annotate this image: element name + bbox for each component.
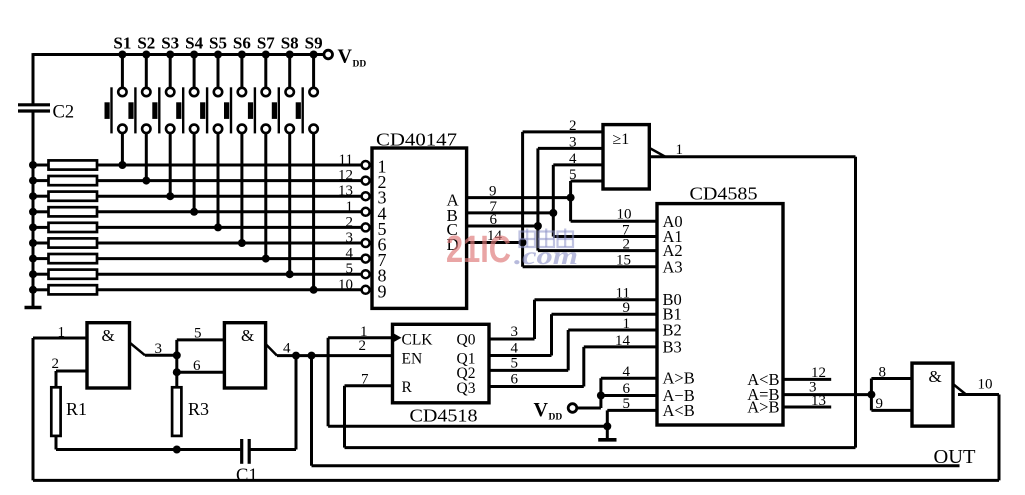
svg-text:A>B: A>B bbox=[747, 398, 779, 417]
wire: NAND3 input fork vertical bbox=[870, 379, 873, 411]
svg-text:15: 15 bbox=[616, 253, 631, 269]
wire: reset feedback line (OR output to R) bbox=[345, 446, 856, 449]
wire: NAND3 output (pin 10) bbox=[958, 393, 999, 396]
wire: input-2 drop to R1 bbox=[55, 371, 58, 387]
wire: A3 input (pin 15) bbox=[523, 265, 657, 268]
wire: Q1 output (pin 4) bbox=[489, 354, 552, 357]
wire: riser A (to OR-5 and A0) bbox=[569, 181, 572, 221]
svg-text:EN: EN bbox=[402, 351, 423, 368]
svg-text:2: 2 bbox=[359, 338, 367, 354]
svg-text:&: & bbox=[241, 326, 254, 345]
wire: row 3 to CD40147 pin 3 bbox=[97, 195, 362, 198]
resistor (input pull-down 8) bbox=[49, 270, 98, 279]
node: left-rail junction row 9 bbox=[29, 286, 37, 294]
pin circle: CD40147 input 8 bbox=[362, 270, 370, 278]
node: junction A=B to NAND inputs bbox=[867, 391, 875, 399]
svg-text:6: 6 bbox=[490, 212, 498, 228]
wire: CLK (pin 1) from grounded riser bbox=[328, 336, 392, 339]
svg-text:14: 14 bbox=[615, 333, 631, 349]
svg-text:S7: S7 bbox=[257, 34, 275, 53]
svg-text:13: 13 bbox=[338, 183, 353, 199]
svg-text:A>B: A>B bbox=[663, 369, 695, 388]
svg-text:C1: C1 bbox=[236, 466, 258, 486]
node: left-rail junction row 1 bbox=[29, 161, 37, 169]
wire: VDD to riser bbox=[577, 407, 601, 410]
NAND3 output wedge bbox=[953, 384, 966, 395]
pin circle: CD40147 input 3 bbox=[362, 192, 370, 200]
node: junction on output D bbox=[519, 239, 527, 247]
svg-text:5: 5 bbox=[623, 396, 631, 412]
wire: B0 input (pin 11) bbox=[535, 298, 658, 301]
svg-text:13: 13 bbox=[811, 393, 826, 409]
NAND2 output wedge bbox=[266, 344, 277, 356]
capacitor C1 bbox=[240, 439, 243, 464]
svg-text:CLK: CLK bbox=[402, 332, 434, 349]
svg-text:5: 5 bbox=[346, 261, 354, 277]
wire: riser B (to OR-4 and A1) bbox=[552, 165, 555, 237]
wire: encoder output C (pin 6) bbox=[467, 225, 538, 228]
wire: RC bottom rail (R1-R3-C1) bbox=[56, 448, 240, 451]
wire: encoder output A (pin 9) bbox=[467, 196, 571, 199]
node: left-rail junction row 8 bbox=[29, 270, 37, 278]
resistor (input pull-down 1) bbox=[49, 160, 98, 169]
IC U4 CD4518 body bbox=[393, 324, 490, 403]
svg-text:2: 2 bbox=[346, 214, 354, 230]
svg-text:8: 8 bbox=[879, 365, 887, 381]
pin circle: CD40147 input 5 bbox=[362, 223, 370, 231]
node: left-rail junction row 3 bbox=[29, 192, 37, 200]
wire: NAND1 input 2 bbox=[56, 370, 87, 373]
svg-text:5: 5 bbox=[511, 355, 519, 371]
pin circle: CD40147 input 6 bbox=[362, 239, 370, 247]
node: junction node4-b bbox=[308, 352, 316, 360]
svg-text:S5: S5 bbox=[209, 34, 227, 53]
pin circle: CD40147 input 7 bbox=[362, 255, 370, 263]
svg-text:S6: S6 bbox=[233, 34, 251, 53]
wire: NAND2 input 6 bbox=[177, 371, 225, 374]
svg-text:S8: S8 bbox=[281, 34, 299, 53]
wire: encoder output B (pin 7) bbox=[467, 211, 554, 214]
svg-text:.com: .com bbox=[514, 243, 578, 270]
node: junction on output A bbox=[567, 194, 575, 202]
wire: left vertical rail (upper) bbox=[32, 53, 35, 104]
svg-text:DD: DD bbox=[353, 60, 367, 70]
wire: row 1 to CD40147 pin 1 bbox=[97, 164, 362, 167]
svg-text:&: & bbox=[929, 367, 942, 386]
svg-text:S9: S9 bbox=[305, 34, 323, 53]
svg-text:4: 4 bbox=[346, 246, 354, 262]
wire: encoder output D (pin 14) bbox=[467, 241, 523, 244]
node: left-rail junction row 2 bbox=[29, 177, 37, 185]
svg-text:12: 12 bbox=[338, 168, 353, 184]
NAND gate U5b body bbox=[224, 323, 265, 388]
svg-text:1: 1 bbox=[346, 199, 354, 215]
wire: node3 vertical (to pin5 / pin6 / R3) bbox=[175, 340, 178, 387]
wire: B3 input (pin 14) bbox=[584, 345, 657, 348]
svg-text:≥1: ≥1 bbox=[613, 131, 630, 148]
wire: riser Q2 to B2 bbox=[567, 330, 570, 370]
wire: row 5 left stub bbox=[33, 226, 49, 229]
svg-text:2: 2 bbox=[623, 237, 631, 253]
node: junction R3 bottom bbox=[173, 446, 181, 454]
resistor (input pull-down 7) bbox=[49, 254, 98, 263]
wire: OR input pin 2 bbox=[523, 130, 603, 133]
wire: row 6 left stub bbox=[33, 242, 49, 245]
wire: A0 input (pin 10) bbox=[571, 220, 657, 223]
svg-text:6: 6 bbox=[193, 358, 201, 374]
wire: riser ground to pin 5 bbox=[606, 410, 609, 426]
svg-text:S3: S3 bbox=[161, 34, 179, 53]
svg-text:S4: S4 bbox=[185, 34, 203, 53]
wire: B1 input (pin 9) bbox=[552, 313, 658, 316]
node: left-rail junction row 7 bbox=[29, 255, 37, 263]
svg-text:Q0: Q0 bbox=[457, 332, 476, 349]
svg-text:R: R bbox=[402, 379, 413, 396]
wire: riser C (to OR-3 and A2) bbox=[536, 148, 539, 250]
node: junction pin 6 bbox=[173, 368, 181, 376]
wire: row 4 to CD40147 pin 4 bbox=[97, 210, 362, 213]
svg-text:S2: S2 bbox=[137, 34, 155, 53]
wire: row 5 to CD40147 pin 5 bbox=[97, 226, 362, 229]
wire: VDD top rail bbox=[33, 53, 324, 56]
wire: riser Q0 to B0 bbox=[533, 300, 536, 339]
svg-text:3: 3 bbox=[346, 230, 354, 246]
svg-text:10: 10 bbox=[617, 207, 632, 223]
wire: row 9 to CD40147 pin 9 bbox=[97, 288, 362, 291]
wire: left vertical rail (lower) bbox=[32, 111, 35, 307]
svg-text:S1: S1 bbox=[113, 34, 131, 53]
OR gate output wedge bbox=[650, 148, 666, 157]
NAND gate U6 body bbox=[912, 363, 953, 426]
ground (bottom of left rail) bbox=[25, 306, 42, 310]
svg-text:1: 1 bbox=[623, 316, 631, 332]
svg-text:2: 2 bbox=[569, 118, 577, 134]
wire: VDD riser to pin 4 bbox=[599, 378, 602, 408]
power terminal VDD (top right) bbox=[324, 50, 333, 59]
svg-text:R3: R3 bbox=[188, 399, 209, 419]
wire: NAND2 output node 4 to CD4518 EN (pin 2) bbox=[277, 354, 393, 357]
wire: row 8 left stub bbox=[33, 273, 49, 276]
IC U1 CD40147 body bbox=[372, 148, 467, 308]
wire: cascade A=B input (pin 6) bbox=[601, 394, 657, 397]
wire: riser Q3 to B3 bbox=[582, 347, 585, 387]
wire: A2 input (pin 2) bbox=[538, 249, 657, 252]
wire: OR output vertical down (to counter reset line) bbox=[854, 157, 857, 448]
node: left-rail junction row 6 bbox=[29, 239, 37, 247]
svg-text:6: 6 bbox=[623, 381, 631, 397]
svg-text:1: 1 bbox=[58, 325, 66, 341]
capacitor C2 bbox=[18, 103, 50, 106]
wire: R drop to feedback line bbox=[343, 386, 346, 448]
svg-text:R1: R1 bbox=[66, 399, 87, 419]
svg-text:3: 3 bbox=[569, 135, 577, 151]
wire: output A=B (pin 3) bbox=[783, 393, 871, 396]
wire: NAND1 input 1 bbox=[33, 337, 87, 340]
wire: row 7 left stub bbox=[33, 257, 49, 260]
svg-text:OUT: OUT bbox=[934, 446, 976, 468]
svg-text:3: 3 bbox=[511, 324, 519, 340]
wire: row 3 left stub bbox=[33, 195, 49, 198]
svg-text:6: 6 bbox=[511, 372, 519, 388]
svg-text:4: 4 bbox=[283, 341, 291, 357]
wire: row 9 left stub bbox=[33, 288, 49, 291]
wire: Q0 output (pin 3) bbox=[489, 338, 535, 341]
wire: cascade A&lt;B input (pin 5) bbox=[607, 409, 657, 412]
wire: OR input pin 4 bbox=[553, 163, 603, 166]
ground (near CD4585) bbox=[606, 426, 609, 439]
svg-text:&: & bbox=[102, 326, 115, 345]
node: junction on output C bbox=[534, 222, 542, 230]
wire: row 1 left stub bbox=[33, 164, 49, 167]
node: left-rail junction row 4 bbox=[29, 208, 37, 216]
wire: row 4 left stub bbox=[33, 210, 49, 213]
wire: OR output to right vertical bbox=[650, 155, 856, 158]
wire: R reset (pin 7) bbox=[345, 384, 393, 387]
svg-text:DD: DD bbox=[549, 413, 563, 423]
wire: left vertical feedback bbox=[32, 338, 35, 480]
wire: ground line to CD4585 ground point bbox=[328, 425, 607, 428]
wire: cascade A&gt;B input (pin 4) bbox=[601, 377, 657, 380]
pin circle: CD40147 input 9 bbox=[362, 286, 370, 294]
resistor (input pull-down 5) bbox=[49, 223, 98, 232]
svg-text:C2: C2 bbox=[53, 103, 75, 123]
power terminal VDD (near CD4585) bbox=[568, 404, 577, 413]
wire: OR input pin 5 bbox=[571, 180, 603, 183]
wire: riser Q1 to B1 bbox=[550, 314, 553, 355]
svg-text:9: 9 bbox=[489, 184, 497, 200]
wire: riser D (to OR-2 and A3) bbox=[521, 132, 524, 267]
node: junction pin 6 tap bbox=[597, 392, 605, 400]
wire: output A&gt;B (pin 13) stub bbox=[783, 406, 831, 409]
wire: bottom feedback rail to NAND1 input 1 bbox=[33, 479, 999, 482]
OR gate U2 body (&ge;1) bbox=[603, 125, 649, 189]
svg-text:3: 3 bbox=[155, 341, 163, 357]
resistor (input pull-down 9) bbox=[49, 285, 98, 294]
resistor (input pull-down 6) bbox=[49, 238, 98, 247]
svg-text:11: 11 bbox=[339, 152, 353, 168]
svg-text:CD4585: CD4585 bbox=[690, 184, 758, 204]
wire: Q3 output (pin 6) bbox=[489, 385, 584, 388]
wire: CLK riser down to ground line bbox=[327, 338, 330, 427]
wire: A1 input (pin 7) bbox=[553, 235, 657, 238]
wire: row 2 to CD40147 pin 2 bbox=[97, 179, 362, 182]
svg-text:V: V bbox=[338, 46, 353, 68]
svg-text:4: 4 bbox=[569, 151, 577, 167]
wire: B2 input (pin 1) bbox=[568, 329, 657, 332]
svg-text:5: 5 bbox=[569, 167, 577, 183]
node: junction on output B bbox=[549, 209, 557, 217]
svg-text:4: 4 bbox=[511, 341, 519, 357]
pin circle: CD40147 input 2 bbox=[362, 177, 370, 185]
pin marker: CLK edge triangle bbox=[393, 333, 402, 343]
node: left-rail junction row 5 bbox=[29, 223, 37, 231]
node: junction node4-a bbox=[292, 352, 300, 360]
resistor R1 bbox=[51, 387, 60, 436]
svg-text:10: 10 bbox=[978, 377, 993, 393]
svg-text:A<B: A<B bbox=[663, 401, 695, 420]
pin circle: CD40147 input 1 bbox=[362, 161, 370, 169]
svg-text:9: 9 bbox=[623, 300, 631, 316]
NAND gate U5a body bbox=[87, 323, 130, 388]
resistor (input pull-down 4) bbox=[49, 207, 98, 216]
wire: output A&lt;B (pin 12) stub bbox=[783, 378, 831, 381]
wire: R1 bottom drop bbox=[55, 436, 58, 450]
wire: OR input pin 3 bbox=[538, 147, 603, 150]
wire: row 6 to CD40147 pin 6 bbox=[97, 242, 362, 245]
wire: C1 to node 4 bbox=[251, 448, 297, 451]
wire: NAND3 input 8 bbox=[871, 377, 912, 380]
svg-text:7: 7 bbox=[361, 372, 369, 388]
wire: OUT line bbox=[312, 464, 960, 467]
svg-text:10: 10 bbox=[338, 277, 353, 293]
NAND1 output wedge bbox=[130, 343, 146, 356]
svg-text:9: 9 bbox=[378, 281, 387, 301]
svg-text:9: 9 bbox=[876, 396, 884, 412]
resistor (input pull-down 3) bbox=[49, 192, 98, 201]
wire: Q2 output (pin 5) bbox=[489, 369, 568, 372]
svg-text:1: 1 bbox=[360, 324, 368, 340]
node: oscillator node 3 bbox=[173, 351, 181, 359]
svg-text:4: 4 bbox=[623, 364, 631, 380]
svg-text:B3: B3 bbox=[663, 337, 682, 356]
IC U3 CD4585 body bbox=[657, 204, 783, 425]
svg-text:V: V bbox=[534, 399, 549, 421]
resistor (input pull-down 2) bbox=[49, 176, 98, 185]
wire: output vertical down right edge bbox=[998, 395, 1001, 481]
wire: node4 drop to OUT line bbox=[310, 356, 313, 466]
svg-text:2: 2 bbox=[52, 356, 60, 372]
wire: NAND3 input 9 bbox=[871, 409, 912, 412]
svg-text:5: 5 bbox=[194, 326, 202, 342]
wire: row 7 to CD40147 pin 7 bbox=[97, 257, 362, 260]
wire: row 8 to CD40147 pin 8 bbox=[97, 273, 362, 276]
svg-text:CD4518: CD4518 bbox=[410, 406, 478, 426]
svg-text:A3: A3 bbox=[663, 257, 683, 276]
wire: row 2 left stub bbox=[33, 179, 49, 182]
svg-text:CD40147: CD40147 bbox=[376, 130, 457, 150]
wire: NAND1 output (pin 3) bbox=[145, 354, 177, 357]
svg-text:Q3: Q3 bbox=[457, 380, 476, 397]
pin circle: CD40147 input 4 bbox=[362, 208, 370, 216]
svg-text:21IC: 21IC bbox=[446, 229, 511, 271]
node: junction ground tap bbox=[603, 422, 611, 430]
wire: NAND2 input 5 bbox=[177, 338, 225, 341]
resistor R3 bbox=[172, 387, 181, 436]
